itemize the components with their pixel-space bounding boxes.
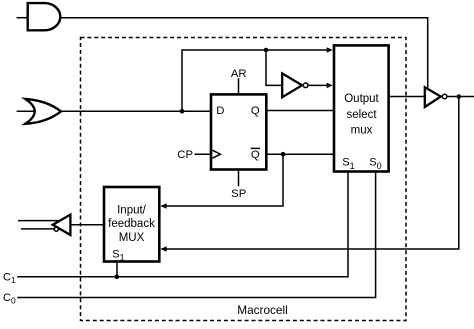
wire true feedback to array [18,220,60,222]
wire C1 line [17,276,349,278]
wire Q output to mux input 3 [265,110,335,112]
wire complement feedback to array [21,228,54,230]
arrowhead into input/feedback mux top input [161,203,167,209]
wire OR input stub [17,110,34,112]
node junction output pin [457,94,462,99]
wire OR output to D input [61,110,212,112]
node junction on top branch [264,48,269,53]
svg-text:Q: Q [251,105,260,117]
wire Qbar feedback down to input/feedback mux [161,154,283,206]
wire SP input [238,169,240,187]
input/feedback MUX box [104,187,159,262]
svg-text:D: D [216,105,224,117]
svg-text:mux: mux [351,125,373,137]
wire AND input stub [17,17,27,19]
wire feedback mux select [116,260,118,277]
macrocell dashed boundary [81,38,407,321]
wire C0 line [17,297,376,299]
wire AR input [238,78,240,95]
wire inverter output to mux input 2 [308,84,330,86]
node junction on Qbar [281,152,286,157]
svg-text:MUX: MUX [119,232,145,244]
wire pin feedback down and left to input/feedback mux [161,97,458,250]
wire down from junction to inverter input [266,50,282,85]
OR gate [25,99,61,124]
svg-text:Output: Output [344,93,379,105]
output buffer (tri-state inverting) [425,87,441,107]
wire AND output to OE (top run then down to output buffer enable) [61,18,428,89]
wire output buffer to pin [447,96,474,98]
svg-text:Input/: Input/ [117,204,147,216]
wire mux output to output buffer [388,96,425,98]
svg-text:AR: AR [231,68,247,80]
clock wedge [212,150,220,158]
svg-text:feedback: feedback [108,218,155,230]
svg-text:Macrocell: Macrocell [237,303,287,317]
output select mux box [334,45,389,171]
node junction C1 to feedback mux select [115,275,120,280]
svg-text:CP: CP [177,149,193,161]
wire CP input [195,153,213,155]
wire branch up from OR output to mux input 1 [182,50,330,111]
wire S0 select down to C0 [375,171,377,298]
inverter (complement of combinational) [282,73,302,97]
wire feedback mux output to feedback buffer [71,224,105,226]
feedback buffer to AND array (complementary outputs) [53,215,71,235]
arrowhead into mux input 2 [327,83,333,89]
svg-text:Q: Q [251,149,260,161]
arrowhead into mux input 1 [327,47,333,53]
D flip-flop U1 [211,94,266,169]
node junction on OR output [180,109,185,114]
wire S1 select down to C1 [347,171,349,277]
svg-text:select: select [346,109,377,121]
svg-text:SP: SP [231,188,246,200]
wire Qbar output to mux input 4 [265,153,335,155]
AND gate [28,3,61,30]
arrowhead into input/feedback mux bottom input [161,246,167,252]
